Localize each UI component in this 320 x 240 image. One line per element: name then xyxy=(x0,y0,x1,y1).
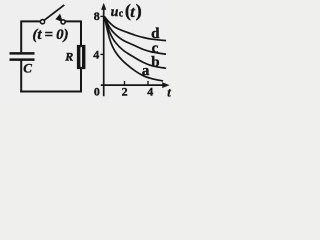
wire top-left horizontal xyxy=(21,20,40,22)
svg-text:t: t xyxy=(167,85,171,99)
curve b xyxy=(104,17,166,69)
y-axis arrowhead xyxy=(101,3,106,10)
resistor R body xyxy=(77,45,86,69)
switch S closing arrow xyxy=(55,14,63,23)
curve d xyxy=(104,17,166,41)
wire left vertical lower xyxy=(20,61,22,93)
background xyxy=(0,0,172,105)
wire top-right horizontal xyxy=(65,20,81,22)
svg-text:C: C xyxy=(23,61,32,76)
svg-text:a: a xyxy=(142,63,150,79)
wire right vertical upper xyxy=(80,21,82,46)
x tick 2 xyxy=(124,81,126,85)
switch S terminal right xyxy=(61,20,65,24)
svg-text:t: t xyxy=(130,4,135,21)
switch S terminal left xyxy=(40,20,44,24)
x-axis arrowhead xyxy=(162,82,169,88)
y tick 4 xyxy=(100,53,103,55)
y-axis xyxy=(103,8,105,96)
svg-text:8: 8 xyxy=(94,9,100,23)
y tick 8 xyxy=(100,15,103,17)
wire bottom horizontal xyxy=(20,90,82,92)
x-axis xyxy=(101,84,163,86)
svg-text:): ) xyxy=(136,0,142,21)
capacitor C top plate xyxy=(10,52,35,55)
svg-text:c: c xyxy=(119,9,124,20)
svg-text:2: 2 xyxy=(122,85,128,99)
svg-text:(t = 0): (t = 0) xyxy=(32,27,68,43)
svg-text:b: b xyxy=(151,54,159,70)
svg-text:0: 0 xyxy=(94,84,100,98)
curve c xyxy=(104,17,166,55)
x tick 4 xyxy=(147,81,149,85)
switch S blade xyxy=(44,5,65,21)
wire right vertical lower xyxy=(80,69,82,92)
capacitor C bottom plate xyxy=(10,58,35,61)
svg-text:4: 4 xyxy=(147,85,153,99)
svg-text:R: R xyxy=(64,50,73,64)
wire left vertical upper xyxy=(20,21,22,53)
curve a xyxy=(104,17,163,82)
svg-text:4: 4 xyxy=(93,48,99,62)
svg-text:u: u xyxy=(111,5,119,20)
